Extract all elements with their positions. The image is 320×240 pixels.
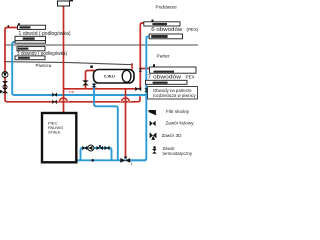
wire red v8 down to thermostatic valve [125,89,127,157]
wire blue bypass loop [81,148,112,160]
C.W.U tank [94,70,135,84]
wire blue riser v2 left + blue main run [12,42,146,95]
svg-text:termostatyczny: termostatyczny [163,151,193,156]
svg-text:Zawór 3D: Zawór 3D [162,133,183,138]
wire red stub tank top-right [131,63,133,70]
attic manifold box E [144,22,180,26]
svg-text:Filtr skośny: Filtr skośny [166,109,190,114]
wire red riser v4 attic supply [140,23,144,89]
svg-text:PEX: PEX [186,75,195,80]
pump on v1 [2,72,8,78]
svg-text:STAŁE: STAŁE [48,130,61,135]
valve with square [97,146,100,150]
tick above v1 elbow [8,25,10,27]
wire red riser v1 left + red2 bottom run [5,28,140,102]
valve bowtie on v4 at parter tee [139,68,143,71]
valve X on v5 [144,88,148,92]
valve bowtie [105,146,110,151]
left manifold box D [15,56,45,60]
svg-text:2: 2 [0,91,2,95]
svg-text:PP: PP [69,90,75,95]
expansion tank [58,1,70,6]
filter on v1 [2,88,8,94]
parter manifold box H [150,67,197,73]
valve bowtie on red1 at v4 tee [135,87,141,91]
valve X on v6 under tank [91,84,97,88]
valve X on v9 tank-left red drop [82,80,89,85]
boiler PIEC [42,113,76,162]
svg-text:C.W.U: C.W.U [104,75,115,79]
tick above tank [90,66,93,68]
wire red stub tank top-left v9 [86,71,95,89]
floor line parter (full width) [4,44,198,46]
floor line piwnica ceiling [4,62,133,65]
legend ball valve [150,121,156,127]
svg-text:Zawór kulowy: Zawór kulowy [166,121,195,126]
legend 3D valve [150,132,157,138]
wire blue riser v5 attic return / legend downcomer [130,37,150,161]
wire blue lower return line [77,159,147,161]
valve bowtie on v1 [2,81,8,86]
junction dot [91,159,94,162]
wire blue v6 under tank + v7 [94,83,118,160]
svg-text:Poddasze: Poddasze [156,4,178,10]
wire red v3 expansion/boiler riser [63,6,65,113]
legend thermostatic valve [152,149,157,154]
valve bowtie on blue main [52,93,57,97]
legend filter [149,110,156,115]
svg-text:Piwnica: Piwnica [36,63,52,68]
wire red1 horizontal [64,88,141,90]
thermostatic valve bottom [120,158,125,163]
wire red2 hop over v3 [59,98,67,102]
left manifold box C [17,47,45,51]
svg-text:7 obwodów: 7 obwodów [148,75,182,81]
left manifold box A [18,25,46,29]
note box [148,87,198,99]
wire red2 hop over v8 [122,98,130,102]
svg-text:rozdzielacza w piwnicy: rozdzielacza w piwnicy [153,93,197,98]
pump circle [88,145,94,151]
wire red stub to box H [140,68,150,70]
svg-text:6 obwodów: 6 obwodów [151,27,182,33]
left manifold box B (double row) [15,36,46,40]
svg-text:Parter: Parter [157,54,170,60]
svg-text:(PEX): (PEX) [187,27,199,32]
attic manifold box F [149,34,182,39]
svg-text:1: 1 [131,162,133,166]
valve bowtie on red2 [52,100,57,104]
parter manifold box I [146,80,188,84]
bypass components: valve [82,146,87,151]
